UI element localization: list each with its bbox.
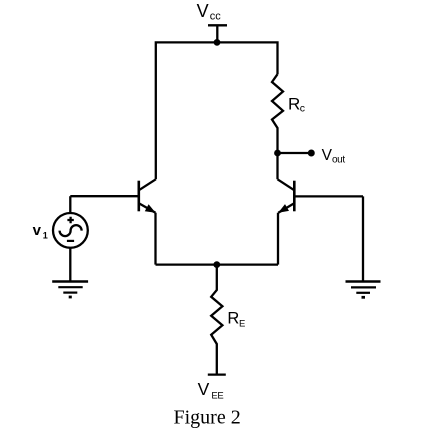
svg-text:v: v: [33, 222, 42, 239]
svg-text:c: c: [300, 102, 305, 114]
svg-text:out: out: [332, 155, 345, 166]
svg-text:V: V: [197, 1, 209, 21]
svg-text:EE: EE: [211, 390, 223, 401]
svg-text:R: R: [227, 309, 239, 327]
svg-text:cc: cc: [210, 10, 222, 22]
svg-text:1: 1: [43, 231, 48, 241]
svg-text:R: R: [288, 94, 300, 113]
svg-text:Figure 2: Figure 2: [174, 407, 241, 429]
svg-text:V: V: [198, 379, 210, 399]
svg-text:V: V: [322, 147, 333, 164]
svg-text:E: E: [239, 318, 245, 329]
